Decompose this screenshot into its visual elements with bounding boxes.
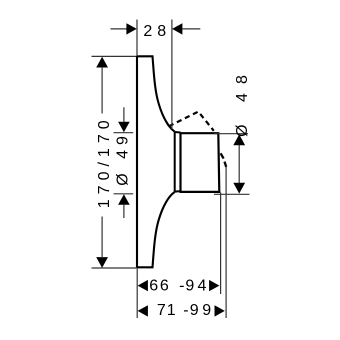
dim O49 top arrow line	[123, 107, 125, 122]
dim O49 bottom tick	[114, 193, 134, 195]
bottom wall ext line	[136, 269, 138, 319]
dim O49 bottom arrow	[118, 194, 130, 205]
dim O48 bottom ext	[214, 193, 250, 195]
dim O48 bottom arrow	[233, 183, 245, 194]
dashed handle front bulge	[221, 153, 224, 158]
escutcheon bottom edge and bell curve	[136, 192, 175, 267]
dashed handle front bulge dash2	[225, 162, 227, 167]
dim 170/170 top ext	[92, 55, 137, 57]
collar	[175, 132, 181, 192]
bottom ext line 66-94	[220, 193, 222, 295]
dim 66-94 right arrow	[209, 280, 219, 291]
dim 71-99 left arrow	[138, 305, 148, 316]
svg-text:Ø 49: Ø 49	[114, 131, 131, 186]
handle cylinder	[181, 133, 220, 192]
dim O48 top ext	[214, 133, 248, 135]
dim 28 left arrow	[126, 23, 136, 34]
dim O48 line	[238, 145, 240, 183]
wall line	[136, 56, 138, 268]
dim 28 right tail	[182, 28, 200, 30]
dim 170/170 top arrow	[96, 57, 108, 68]
dim O49 bottom arrow line	[123, 205, 125, 218]
svg-text:71-99: 71-99	[157, 302, 211, 319]
escutcheon top edge and bell curve	[136, 56, 175, 131]
svg-text:Ø 48: Ø 48	[234, 66, 251, 137]
dim 71-99 right arrow	[215, 305, 225, 316]
dim 28 ext line right	[171, 20, 173, 130]
dashed handle tilted	[169, 112, 214, 131]
dim 28 right arrow	[172, 23, 182, 34]
dim 170/170 bottom ext	[92, 267, 137, 269]
svg-text:170/170: 170/170	[96, 115, 113, 208]
dim O49 top tick	[114, 132, 134, 134]
dim 28 ext line left	[136, 20, 138, 56]
dim 28 left tail	[111, 28, 128, 30]
dim 66-94 left arrow	[138, 280, 148, 291]
dim O48 top arrow	[233, 134, 245, 145]
dim O49 top arrow	[118, 122, 130, 133]
dim 170/170 bottom arrow	[96, 257, 108, 268]
dim 170/170 line upper	[101, 67, 103, 114]
dim 170/170 line lower	[101, 217, 103, 259]
bottom ext line 71-99	[225, 167, 227, 318]
